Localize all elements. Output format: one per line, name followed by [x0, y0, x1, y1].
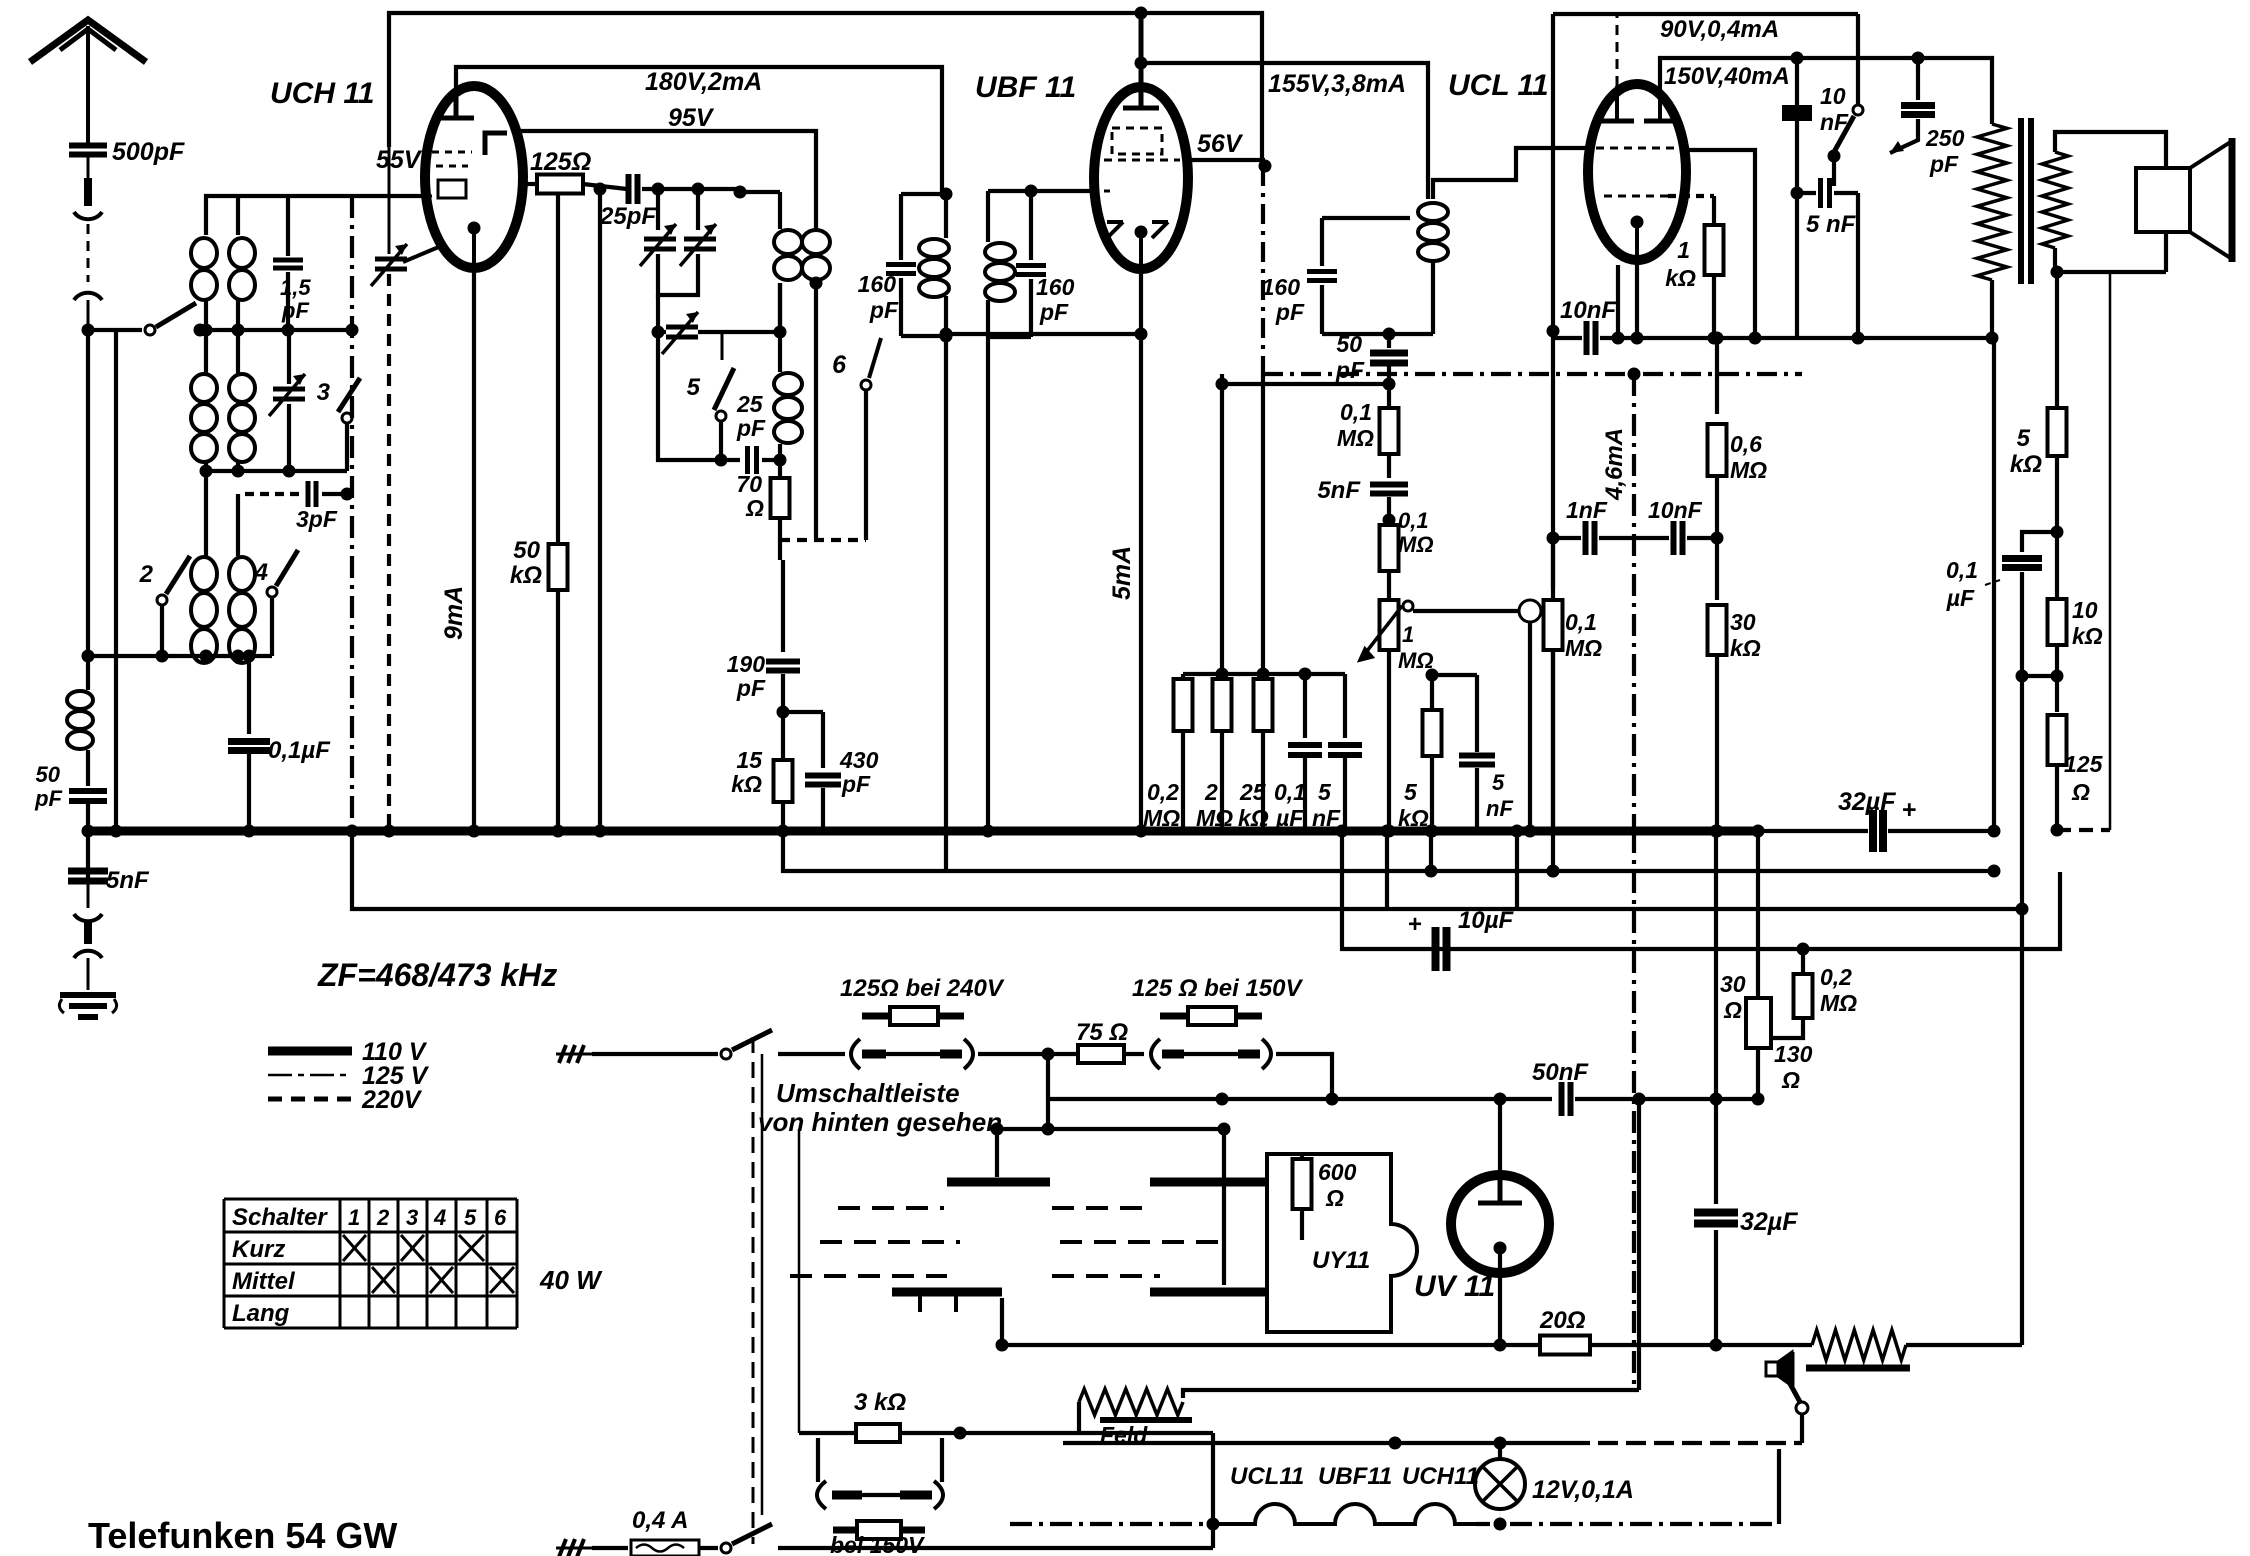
coil antenna bandfilter secondary top	[229, 238, 255, 300]
wire osc coil feeds	[204, 471, 208, 556]
resistor 0.2M right lower	[1801, 949, 1805, 974]
svg-text:25pF: 25pF	[599, 203, 657, 230]
op top line A y13	[389, 13, 1262, 166]
headphone jack	[1800, 1414, 1804, 1443]
heater junction x1002	[1000, 1298, 1004, 1345]
coil oscillator tank	[774, 373, 802, 443]
wire x600 down to bus	[598, 189, 602, 831]
svg-text:3: 3	[317, 379, 331, 406]
svg-text:10: 10	[2072, 597, 2098, 623]
bus thin extension	[1756, 829, 1868, 833]
svg-text:0,1: 0,1	[1340, 399, 1372, 425]
svg-text:1: 1	[348, 1205, 360, 1230]
wire	[778, 444, 782, 460]
svg-text:5: 5	[1492, 770, 1505, 795]
wire	[204, 330, 208, 373]
pickup jack circle	[1519, 600, 1541, 622]
UV11 anode wire to 50nF rail	[1498, 1099, 1502, 1177]
svg-text:32µF: 32µF	[1740, 1208, 1798, 1236]
wire	[719, 422, 723, 460]
resistor 125 ohm	[537, 175, 583, 194]
svg-text:MΩ: MΩ	[1565, 635, 1602, 661]
wire	[204, 300, 208, 330]
svg-text:1: 1	[1677, 237, 1690, 263]
line E 150V y58	[1660, 58, 1992, 124]
svg-text:5 nF: 5 nF	[1806, 211, 1857, 238]
node	[810, 277, 823, 290]
svg-text:nF: nF	[1486, 796, 1513, 821]
svg-text:+: +	[1902, 796, 1917, 824]
wire	[204, 462, 208, 471]
wire y334 under UBF	[946, 332, 1141, 336]
resistor 0.6M	[1715, 338, 1719, 414]
wire grid to 125 ohm	[523, 182, 536, 186]
wire oscillator bottom chain	[778, 518, 782, 560]
svg-text:30: 30	[1730, 609, 1756, 635]
wire cathode down	[1635, 258, 1639, 338]
wire	[1856, 14, 1860, 105]
UV11 anode	[1478, 1180, 1522, 1203]
wire	[1772, 1018, 1803, 1038]
svg-text:kΩ: kΩ	[2072, 623, 2103, 649]
wire trimmer bottoms	[658, 254, 698, 295]
heater bumps UCL11 UBF11 UCH11	[1213, 1504, 1476, 1524]
capacitor 50nF mains	[1562, 1082, 1571, 1116]
speaker wires	[2055, 132, 2166, 168]
svg-text:pF: pF	[281, 298, 309, 323]
tube UV11 envelope	[1451, 1175, 1549, 1273]
svg-text:5: 5	[1318, 779, 1332, 805]
UV11 cathode	[1494, 1242, 1507, 1255]
wire x1758 from bus	[1756, 831, 1760, 998]
wire	[1077, 1402, 1081, 1433]
coil antenna bandfilter primary top	[191, 238, 217, 300]
wire	[1715, 476, 1719, 538]
svg-text:2: 2	[139, 561, 154, 588]
switch 3	[338, 378, 360, 412]
capacitor 500pF antenna series	[69, 146, 107, 155]
wire	[236, 330, 240, 373]
svg-text:MΩ: MΩ	[1398, 648, 1434, 673]
svg-text:3pF: 3pF	[296, 506, 338, 532]
wire x1618 pentode lower	[1616, 265, 1620, 338]
wire 3k rail y1433	[799, 1431, 1079, 1435]
svg-text:UCH 11: UCH 11	[270, 77, 374, 110]
wire	[2022, 674, 2057, 678]
UCH11 triode anode bracket	[485, 133, 507, 155]
wire	[236, 656, 240, 664]
wire	[583, 184, 627, 189]
wire y189 to osc trimmers	[642, 187, 740, 191]
svg-text:UBF 11: UBF 11	[975, 71, 1076, 104]
coil osc feedback A	[774, 230, 802, 280]
svg-text:MΩ: MΩ	[1337, 425, 1374, 451]
legend 125V	[268, 1074, 352, 1077]
resistor 3k	[856, 1424, 900, 1442]
wire	[1429, 831, 1433, 871]
wire	[270, 598, 274, 656]
wire	[1756, 1048, 1760, 1099]
selector dashes	[790, 1208, 1220, 1276]
capacitor 10uF electrolytic	[1436, 927, 1447, 971]
svg-text:15: 15	[736, 747, 763, 773]
svg-text:90V,0,4mA: 90V,0,4mA	[1660, 16, 1779, 43]
UBF11 diodes	[1107, 222, 1168, 238]
capacitor 50pF detector	[1387, 334, 1391, 348]
mains input bottom line	[556, 1539, 592, 1556]
coil antenna choke L1	[67, 691, 93, 749]
capacitor 0.1uF right	[2022, 532, 2057, 552]
capacitor 10nF feedthrough block	[1795, 58, 1799, 338]
svg-text:25: 25	[736, 391, 764, 417]
svg-text:5nF: 5nF	[1317, 477, 1361, 504]
svg-text:6: 6	[832, 351, 847, 379]
svg-text:kΩ: kΩ	[1730, 635, 1761, 661]
svg-text:3 kΩ: 3 kΩ	[854, 1389, 906, 1416]
svg-text:0,6: 0,6	[1730, 431, 1762, 457]
speaker field winding right	[1812, 1330, 1906, 1360]
node	[1797, 943, 1810, 956]
headphone speaker symbol	[1766, 1352, 1792, 1386]
svg-text:75 Ω: 75 Ω	[1076, 1019, 1128, 1046]
wire	[1029, 191, 1033, 260]
svg-text:0,2: 0,2	[1820, 964, 1852, 990]
coil bandfilter secondary mid	[229, 374, 255, 462]
svg-text:50nF: 50nF	[1532, 1059, 1589, 1086]
capacitor 3pF padder	[245, 492, 302, 496]
wire dashed y1443	[1570, 1441, 1802, 1445]
switch 1	[145, 325, 155, 335]
selector bar lower left	[892, 1288, 1002, 1297]
second line y871	[783, 831, 1994, 871]
svg-text:125Ω bei 240V: 125Ω bei 240V	[840, 975, 1005, 1002]
selector inner feed	[1046, 1099, 1050, 1129]
svg-text:Mittel: Mittel	[232, 1268, 296, 1295]
tube UCL11 envelope	[1588, 84, 1686, 260]
wire y330 continues	[200, 328, 352, 332]
coil IF3 secondary	[1418, 203, 1448, 261]
svg-text:Umschaltleiste: Umschaltleiste	[776, 1078, 960, 1108]
wire	[1079, 1431, 1213, 1435]
svg-text:70: 70	[736, 471, 762, 497]
capacitor 5nF jack	[1475, 675, 1479, 752]
resistor 70 ohm	[778, 460, 782, 478]
svg-text:55V: 55V	[376, 146, 423, 174]
resistor 20 ohm	[1540, 1336, 1590, 1355]
wire AVC y374 dashed	[1263, 372, 1802, 376]
coil osc feedback B	[802, 230, 830, 280]
svg-text:1: 1	[1402, 622, 1414, 647]
selector frame verticals	[752, 1037, 755, 1544]
wire x1716 from bus	[1714, 831, 1718, 1099]
line B 180V	[456, 67, 942, 194]
IF1 primary loop	[901, 192, 946, 196]
IF3 capacitor 160pF	[1322, 216, 1410, 220]
svg-text:pF: pF	[1335, 357, 1365, 383]
svg-text:5: 5	[2017, 425, 2031, 452]
svg-text:150V,40mA: 150V,40mA	[1664, 63, 1790, 90]
svg-text:MΩ: MΩ	[1398, 532, 1434, 557]
svg-text:+: +	[1408, 911, 1422, 938]
resistor 1k cathode	[1668, 194, 1714, 198]
wire	[1777, 1449, 1781, 1524]
wire	[778, 192, 782, 229]
trimmer oscillator 1	[656, 189, 660, 230]
capacitor 25pF grid	[629, 174, 638, 204]
svg-text:MΩ: MΩ	[1820, 990, 1857, 1016]
trimmer antenna circuit	[287, 330, 291, 384]
wire	[1385, 831, 1389, 909]
bracket link under 3k	[816, 1438, 820, 1482]
dial lamp	[1475, 1459, 1525, 1509]
svg-text:50: 50	[1336, 331, 1362, 357]
wire jack column down	[1528, 623, 1532, 831]
svg-text:pF: pF	[869, 297, 899, 323]
antenna	[30, 20, 146, 144]
svg-text:160: 160	[858, 271, 897, 297]
svg-text:2: 2	[376, 1205, 390, 1230]
svg-text:1,5: 1,5	[280, 275, 311, 300]
lamp connections	[1494, 1518, 1507, 1531]
resistor 600 ohm	[1300, 1154, 1304, 1160]
capacitor 25pF osc feedback	[658, 332, 740, 460]
svg-text:10nF: 10nF	[1560, 297, 1617, 324]
wire	[86, 750, 90, 786]
wire dash 125V drop x1263	[1261, 166, 1265, 374]
wire to chassis bus	[86, 802, 90, 831]
capacitor 0.1uF det	[1303, 674, 1307, 738]
svg-text:Schalter: Schalter	[232, 1204, 328, 1231]
wire x1639	[1637, 1099, 1641, 1390]
line C 155V anode UBF	[1141, 63, 1428, 199]
svg-text:0,1: 0,1	[1398, 508, 1429, 533]
wire	[236, 300, 240, 330]
selector bar upper right	[1150, 1178, 1267, 1187]
voltage link 150V section	[1151, 1039, 1160, 1069]
wire pot tap to pickup jack	[1413, 609, 1518, 613]
wire grid UBF11	[1031, 189, 1096, 193]
wire	[656, 295, 660, 332]
resistor 5k	[1432, 673, 1477, 677]
voltage link 240V section	[851, 1039, 860, 1069]
resistor 50k to bus	[556, 192, 560, 544]
wire	[1856, 193, 1860, 338]
wire 20 ohm rail y1345	[1002, 1343, 1538, 1347]
capacitor 50pF antenna	[69, 791, 107, 801]
selector bar lower right	[1150, 1288, 1267, 1297]
wire dashed anode to line D	[1616, 14, 1619, 86]
coil IF1 secondary	[985, 243, 1015, 301]
svg-text:10µF: 10µF	[1458, 907, 1515, 934]
wire	[1222, 1129, 1226, 1285]
speaker	[2136, 168, 2190, 232]
wire primary bottom down	[1990, 280, 1994, 338]
svg-text:pF: pF	[1039, 299, 1069, 325]
wire	[1832, 156, 1836, 186]
svg-text:5nF: 5nF	[106, 867, 150, 894]
svg-text:UCH11: UCH11	[1402, 1463, 1479, 1490]
wire field to x1639	[1183, 1390, 1639, 1398]
svg-text:56V: 56V	[1197, 130, 1244, 158]
svg-text:kΩ: kΩ	[731, 771, 762, 797]
svg-text:UCL 11: UCL 11	[1448, 69, 1549, 102]
UBF11 cathode to bus 5mA	[1139, 268, 1143, 831]
resistor 0.1M volume chain upper	[1387, 384, 1391, 408]
svg-text:220V: 220V	[361, 1086, 423, 1114]
capacitor 430pF	[783, 710, 823, 714]
UCH11 cathode	[468, 222, 481, 235]
svg-text:40 W: 40 W	[539, 1265, 603, 1295]
svg-text:Telefunken 54 GW: Telefunken 54 GW	[88, 1515, 397, 1556]
wire	[2020, 572, 2024, 676]
trimmer oscillator padder 3	[658, 330, 666, 334]
svg-text:2: 2	[1204, 779, 1218, 805]
svg-text:6: 6	[494, 1205, 507, 1230]
svg-text:160: 160	[1262, 274, 1301, 300]
wire	[778, 283, 782, 332]
svg-text:kΩ: kΩ	[510, 562, 542, 589]
earth plug connector	[74, 882, 102, 990]
wire AVC y384 to volume chain	[1222, 382, 1389, 386]
svg-text:pF: pF	[841, 771, 871, 797]
capacitor 5nF det	[1343, 674, 1347, 738]
wire	[236, 196, 240, 235]
wire	[2055, 765, 2059, 830]
wire IF3 to UCL grid	[1433, 148, 1590, 199]
IF1 capacitor 160pF primary	[899, 194, 903, 260]
resistor 5k right	[2055, 272, 2059, 408]
svg-text:UY11: UY11	[1312, 1247, 1370, 1274]
switch table	[224, 1199, 517, 1328]
svg-text:4: 4	[433, 1205, 446, 1230]
svg-text:5mA: 5mA	[1108, 546, 1136, 600]
resistor 10k right	[2055, 532, 2059, 598]
antenna plug connector	[74, 156, 102, 330]
wire grid line y196 band filter to UCH11 grid	[206, 196, 426, 235]
UCH11 anode hexode	[438, 92, 474, 118]
svg-text:130: 130	[1774, 1041, 1813, 1067]
svg-text:600: 600	[1318, 1159, 1357, 1185]
node bus-antenna junction	[82, 825, 95, 838]
resistor 25k	[1261, 374, 1265, 679]
output transformer core	[2021, 118, 2031, 284]
svg-text:kΩ: kΩ	[1665, 265, 1696, 291]
wire x352 AVC dash-dot to bus	[350, 196, 354, 831]
wire	[1790, 1352, 1795, 1386]
UCH11 grids	[426, 152, 472, 198]
wire x1213 riser	[1211, 1433, 1215, 1548]
UCH11 cathode wire to bus 9mA	[472, 268, 476, 831]
UCL11 cathode	[1631, 216, 1644, 229]
svg-text:5: 5	[1404, 779, 1418, 805]
wire x389 dashed to bus	[388, 147, 391, 254]
capacitor 1nF	[1553, 536, 1581, 540]
resistor 0.1M UCL grid	[1551, 538, 1555, 588]
svg-text:4,6mA: 4,6mA	[1601, 428, 1628, 501]
wire y338 continues right	[1717, 336, 1992, 340]
capacitor 190pF	[781, 560, 785, 652]
svg-text:Ω: Ω	[1325, 1185, 1344, 1211]
capacitor 10nF second	[1674, 521, 1683, 555]
svg-text:0,1: 0,1	[1565, 609, 1597, 635]
tone switch	[1853, 105, 1863, 115]
svg-text:MΩ: MΩ	[1730, 457, 1767, 483]
output transformer secondary	[2042, 152, 2068, 248]
svg-text:5: 5	[464, 1205, 477, 1230]
resistor 0.1M volume chain lower	[1380, 525, 1399, 571]
wire	[864, 391, 868, 540]
wire left column x116 from switch junction to bus	[114, 330, 118, 831]
resistor 125 ohm right	[2055, 676, 2059, 712]
UBF11 grid box	[1104, 128, 1180, 191]
wire y674 detector row	[1183, 672, 1345, 676]
oscillator anode coil	[740, 190, 780, 194]
wire	[814, 192, 818, 229]
svg-text:pF: pF	[1275, 299, 1305, 325]
trimmer oscillator padding	[371, 244, 407, 286]
selector bar upper left	[947, 1178, 1050, 1187]
wire cathode to 20ohm rail	[1498, 1248, 1502, 1345]
svg-text:0,1: 0,1	[1946, 557, 1978, 583]
svg-text:500pF: 500pF	[112, 138, 185, 166]
UCL11 triode anode	[1644, 119, 1676, 124]
svg-text:50: 50	[513, 537, 540, 564]
wire	[2020, 676, 2024, 1345]
resistor 75 ohm	[1048, 1052, 1076, 1056]
svg-text:pF: pF	[34, 786, 62, 811]
mains input top line	[556, 1045, 592, 1063]
output transformer primary	[1977, 124, 2007, 280]
capacitor 250pF	[1912, 52, 1925, 65]
svg-text:10nF: 10nF	[1648, 497, 1703, 523]
capacitor 5nF earth	[68, 871, 108, 881]
wire y334 IF3 bottom	[1322, 332, 1433, 336]
wire	[1515, 831, 1519, 909]
capacitor 32uF electrolytic upper	[1873, 810, 1883, 852]
svg-text:von hinten gesehen: von hinten gesehen	[758, 1107, 1002, 1137]
wire y471	[200, 469, 347, 473]
IF1 capacitor 160pF secondary	[1016, 266, 1046, 275]
wire antenna column	[86, 330, 90, 690]
resistor 0.2M	[1181, 674, 1185, 679]
capacitor 0.1uF oscillator tracking	[247, 656, 251, 734]
spare resistor bei 150V lower	[833, 1527, 925, 1534]
svg-text:32µF: 32µF	[1838, 788, 1896, 816]
wire	[1300, 1209, 1304, 1240]
wire	[995, 1129, 999, 1177]
svg-text:20Ω: 20Ω	[1539, 1307, 1586, 1334]
legend 220V	[268, 1097, 352, 1102]
svg-text:155V,3,8mA: 155V,3,8mA	[1268, 70, 1406, 98]
capacitor 32uF lower	[1714, 1099, 1718, 1204]
line D top right y14	[1553, 12, 1858, 16]
coil oscillator secondary	[229, 557, 255, 663]
wire IF1 secondary return down	[986, 337, 990, 831]
wire dashed osc link	[780, 538, 866, 542]
svg-text:25: 25	[1239, 779, 1267, 805]
wire 56V screen	[1189, 158, 1265, 162]
mains switch upper pole	[721, 1049, 731, 1059]
wire pot to bus	[1387, 650, 1391, 831]
wire	[345, 424, 349, 471]
svg-text:Lang: Lang	[232, 1300, 290, 1327]
wire y1443 lamp feed	[1063, 1441, 1570, 1445]
wire	[1431, 260, 1435, 334]
svg-text:Ω: Ω	[1781, 1067, 1800, 1093]
table crosses	[343, 1235, 514, 1293]
wire IF1 feed down to line2	[944, 336, 948, 870]
wire dashed AVC x1222	[1220, 374, 1224, 679]
